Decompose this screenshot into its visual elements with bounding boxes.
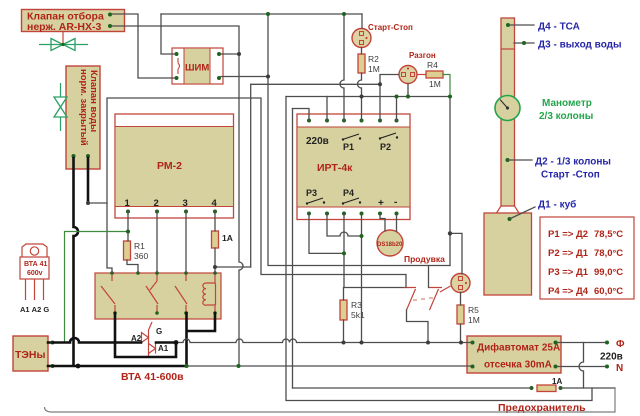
svg-text:Р2 => Д1: Р2 => Д1 bbox=[548, 248, 589, 259]
wire: IRT p4 riser bbox=[361, 97, 363, 121]
resistor R3 5k1 bbox=[340, 300, 365, 320]
svg-text:А1: А1 bbox=[158, 344, 169, 353]
bottom pins bbox=[307, 212, 311, 216]
svg-text:Старт -Стоп: Старт -Стоп bbox=[541, 170, 600, 181]
wire: pin4 line y267 bbox=[215, 266, 251, 268]
wire: Start-Stop top bbox=[361, 14, 363, 28]
svg-text:R5: R5 bbox=[468, 305, 479, 315]
wire: purge connector bottom to R5 bbox=[460, 293, 462, 306]
wire: x268 vertical ШИМ net bbox=[268, 14, 450, 266]
fuse 1A (РМ-2 pin4) bbox=[212, 231, 233, 248]
wire: IRT p3 riser from top bus bbox=[340, 14, 344, 121]
coil bbox=[206, 273, 215, 313]
junction dots (connected nodes, green) bbox=[126, 12, 452, 368]
fuse 1A (mains) bbox=[530, 377, 563, 392]
wire: IRT p2 riser bbox=[326, 97, 328, 121]
svg-text:78,0°С: 78,0°С bbox=[594, 248, 623, 259]
wire: green net R1 bbox=[65, 232, 127, 343]
column pipe bbox=[497, 18, 520, 213]
wire: y203 link to loop bbox=[88, 202, 107, 204]
resistor R4 1M bbox=[417, 60, 443, 89]
svg-text:норм. закрытый: норм. закрытый bbox=[78, 69, 89, 146]
wire: triac to F node bbox=[156, 341, 176, 344]
svg-text:ТЭНы: ТЭНы bbox=[15, 349, 45, 361]
wire: mains right F bbox=[558, 342, 606, 344]
P3 relay contact bbox=[308, 198, 323, 203]
svg-text:Р4 => Д4: Р4 => Д4 bbox=[548, 286, 589, 297]
mains terminals bbox=[600, 339, 625, 374]
svg-text:ВТА 41: ВТА 41 bbox=[24, 261, 48, 268]
wire: F thick from heaters to triac bbox=[53, 338, 142, 343]
junction dots (connected nodes, dark) bbox=[86, 52, 463, 345]
controller РМ-2 bbox=[115, 114, 234, 218]
wire: x427 drop to purge switch bbox=[428, 266, 430, 288]
svg-text:А1 А2 G: А1 А2 G bbox=[20, 305, 49, 314]
P1 relay contact bbox=[344, 134, 359, 139]
sensor D3 label bbox=[514, 40, 622, 51]
svg-text:3: 3 bbox=[183, 198, 188, 209]
svg-text:Д3 - выход воды: Д3 - выход воды bbox=[538, 40, 622, 51]
cube (куб) vessel bbox=[484, 213, 532, 295]
temperature table bbox=[540, 217, 634, 299]
svg-text:1А: 1А bbox=[552, 377, 562, 386]
heaters box ТЭНы bbox=[13, 336, 55, 371]
contact S2 bbox=[146, 273, 158, 313]
svg-text:Р3: Р3 bbox=[306, 188, 317, 198]
wire: IRT p6 riser bbox=[396, 97, 398, 121]
wire: selection valve pin2 down to N bbox=[112, 26, 243, 364]
button Старт-Стоп bbox=[352, 23, 413, 48]
selection valve symbol bbox=[39, 32, 88, 51]
wire: bus y96.5 bbox=[286, 96, 450, 98]
svg-text:Ф: Ф bbox=[616, 339, 625, 350]
wire: x250 down to pin4 line bbox=[250, 84, 252, 267]
svg-text:отсечка 30mA: отсечка 30mA bbox=[484, 360, 552, 371]
svg-text:ШИМ: ШИМ bbox=[185, 63, 209, 74]
svg-text:Разгон: Разгон bbox=[409, 51, 436, 60]
svg-text:1А: 1А bbox=[222, 233, 233, 243]
svg-text:2/3 колоны: 2/3 колоны bbox=[539, 111, 593, 122]
svg-text:5k1: 5k1 bbox=[351, 310, 365, 320]
svg-text:Д4 - ТСА: Д4 - ТСА bbox=[538, 22, 580, 33]
wire: coil bottom jog bbox=[187, 313, 215, 331]
svg-text:+: + bbox=[378, 198, 384, 209]
top pins bbox=[307, 119, 311, 123]
svg-text:Д1 - куб: Д1 - куб bbox=[538, 199, 576, 211]
svg-text:1М: 1М bbox=[429, 79, 441, 89]
circuit breaker Дифавтомат bbox=[467, 336, 561, 373]
svg-text:Д2 - 1/3 колоны: Д2 - 1/3 колоны bbox=[535, 157, 611, 168]
svg-text:R1: R1 bbox=[134, 241, 145, 251]
wire: PWM right-bottom to x268 bbox=[221, 76, 268, 78]
svg-text:Р4: Р4 bbox=[343, 188, 354, 198]
wire: DS18b20 legs bbox=[380, 215, 397, 231]
wire: IRT b4 down to F bbox=[361, 214, 363, 343]
resistor R5 1M bbox=[457, 305, 480, 325]
wire: R4 right to vertical green x450 bbox=[443, 75, 450, 97]
wire: PWM right-top to x239 bbox=[221, 53, 239, 55]
svg-text:R4: R4 bbox=[427, 60, 438, 70]
wire: IRT p5 riser bbox=[379, 84, 381, 120]
junction dots (power bus, black) bbox=[76, 340, 179, 368]
svg-text:Р1: Р1 bbox=[343, 142, 354, 152]
wire: R2 bottom hop y84 to node bbox=[358, 73, 362, 97]
wire: x450 down to purge nets bbox=[449, 97, 451, 266]
svg-text:1: 1 bbox=[125, 198, 131, 209]
box pins bbox=[110, 271, 114, 275]
svg-text:360: 360 bbox=[134, 251, 148, 261]
wire: N line thin bbox=[187, 365, 471, 367]
wire: razgon bottom leg bbox=[407, 84, 409, 97]
wire: razgon left leg bbox=[380, 75, 399, 85]
contact S3 bbox=[175, 273, 187, 313]
wire: R5 bottom to F bbox=[460, 324, 462, 343]
valve box "Клапан отбора нерж. AR-HX-3" bbox=[22, 10, 125, 34]
purge connector circle bbox=[451, 274, 470, 293]
wire: IRT b2 to b4 riser bbox=[327, 214, 362, 237]
triac package BTA41 bbox=[20, 244, 49, 314]
wire: mains right N bbox=[558, 366, 606, 368]
sensor D1 label bbox=[508, 199, 577, 222]
svg-text:РМ-2: РМ-2 bbox=[157, 160, 182, 172]
wire: F line thin bbox=[176, 339, 471, 343]
svg-text:G: G bbox=[156, 327, 162, 336]
wire: Start-Stop bottom to R2 bbox=[361, 48, 363, 55]
svg-text:1М: 1М bbox=[368, 64, 380, 74]
svg-text:Р2: Р2 bbox=[380, 142, 391, 152]
relay block with 3 contacts and coil bbox=[95, 271, 221, 319]
wire: purge switch bottom drop bbox=[407, 310, 429, 343]
svg-text:-: - bbox=[394, 197, 397, 208]
wire: bottom return bus bbox=[45, 388, 616, 412]
wire: branch to purge connector top bbox=[450, 233, 462, 274]
svg-text:R2: R2 bbox=[368, 54, 379, 64]
svg-text:ИРТ-4к: ИРТ-4к bbox=[317, 162, 353, 174]
svg-text:Старт-Стоп: Старт-Стоп bbox=[368, 23, 413, 32]
svg-text:Манометр: Манометр bbox=[542, 98, 592, 109]
sensor D4 label bbox=[506, 22, 580, 33]
wire: РМ-2 pin3 riser bbox=[185, 212, 187, 274]
wire: bus y84 bbox=[251, 83, 380, 85]
wire: РМ-2 pin2 riser bbox=[156, 212, 158, 274]
svg-text:600v: 600v bbox=[27, 270, 43, 277]
svg-text:99,0°С: 99,0°С bbox=[594, 267, 623, 278]
svg-text:4: 4 bbox=[212, 198, 218, 209]
svg-text:Р3 => Д1: Р3 => Д1 bbox=[548, 267, 589, 278]
wire: relay pin3+coil riser to N bbox=[185, 313, 188, 365]
P2 relay contact bbox=[381, 133, 396, 138]
wire: R3 inline bbox=[343, 288, 345, 343]
temperature sensor DS18b20 bbox=[377, 230, 403, 256]
svg-text:220в: 220в bbox=[600, 352, 623, 363]
sensor D2 label bbox=[506, 157, 611, 181]
wire: water valve left pin down bbox=[74, 158, 79, 365]
wire: fuse line bbox=[293, 387, 616, 389]
svg-text:Р1 => Д2: Р1 => Д2 bbox=[548, 229, 588, 240]
wire: IRT b1 down bbox=[309, 214, 344, 254]
svg-text:1М: 1М bbox=[468, 315, 480, 325]
wire: drop to PWM upper-left bbox=[161, 14, 175, 54]
svg-text:220в: 220в bbox=[306, 136, 329, 147]
triac symbol A2/G/A1 bbox=[131, 322, 169, 357]
wire: top bus y14 bbox=[161, 13, 362, 15]
svg-text:Дифавтомат 25А: Дифавтомат 25А bbox=[477, 342, 560, 354]
wire: N thick from heaters bbox=[53, 365, 188, 368]
wire: selection valve pin1 to PWM lower-left bbox=[112, 14, 175, 78]
svg-text:78,5°С: 78,5°С bbox=[594, 229, 623, 240]
wire: x286 wrap down bbox=[286, 97, 592, 401]
wire: IRT b3 down to purge stub bbox=[344, 214, 403, 288]
wire: РМ-2 pin4 through fuse to coil bbox=[214, 212, 216, 274]
contact S1 bbox=[101, 273, 115, 313]
wire: РМ-2 pin1 to R1 bbox=[127, 212, 138, 274]
svg-text:R3: R3 bbox=[351, 300, 362, 310]
svg-text:N: N bbox=[616, 363, 623, 374]
svg-text:2: 2 bbox=[154, 198, 159, 209]
PWM module ШИМ bbox=[172, 48, 223, 84]
resistor R1 360 bbox=[124, 241, 149, 261]
wire: IRT p1 riser bbox=[293, 109, 310, 121]
manometer bbox=[495, 96, 520, 121]
resistor R2 1M bbox=[358, 54, 380, 74]
water valve symbol bbox=[54, 83, 67, 131]
purge switch (2-gang) bbox=[403, 286, 451, 310]
svg-text:DS18b20: DS18b20 bbox=[377, 242, 403, 248]
wire: water valve right pin down bbox=[87, 158, 90, 203]
svg-text:60,0°С: 60,0°С bbox=[594, 286, 623, 297]
P4 relay contact bbox=[344, 198, 359, 203]
svg-text:Продувка: Продувка bbox=[404, 254, 445, 264]
svg-text:ВТА 41-600в: ВТА 41-600в bbox=[121, 371, 184, 383]
controller ИРТ-4к bbox=[297, 114, 410, 220]
svg-text:нерж. AR-HX-3: нерж. AR-HX-3 bbox=[27, 21, 101, 33]
wire: grey loop around РМ-2 bbox=[107, 98, 406, 288]
water valve box "Клапан воды норм. закрытый" bbox=[66, 66, 100, 169]
wire: F drop to fuse line bbox=[579, 343, 584, 389]
button Разгон bbox=[399, 51, 436, 84]
wire: x292 wrap down to fuse line bbox=[292, 109, 294, 389]
wire: triac bypass loop bbox=[115, 313, 176, 357]
